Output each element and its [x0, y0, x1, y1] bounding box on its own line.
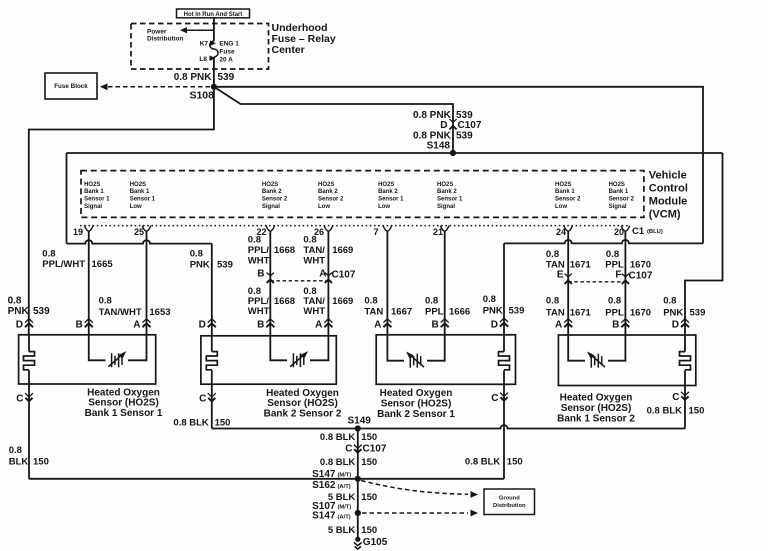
- svg-text:0.8 BLK: 0.8 BLK: [320, 432, 356, 443]
- svg-text:0.8: 0.8: [483, 294, 496, 305]
- wire PNK 539 S148 bus: [67, 152, 723, 154]
- svg-text:S108: S108: [189, 90, 214, 102]
- svg-text:Sensor 1: Sensor 1: [437, 197, 463, 203]
- svg-text:20: 20: [614, 227, 624, 237]
- sensor 1 C pin: [28, 384, 30, 479]
- svg-text:Fuse: Fuse: [219, 48, 235, 55]
- svg-text:HO2S: HO2S: [609, 182, 625, 188]
- sense element sensor 1: [89, 335, 147, 361]
- wire PNK 539 S108 diagonal to S148 drop: [214, 87, 453, 153]
- svg-text:A: A: [319, 268, 326, 279]
- svg-text:539: 539: [217, 259, 233, 270]
- svg-text:Bank 1: Bank 1: [555, 189, 575, 195]
- pin 24: [564, 226, 573, 232]
- svg-text:Power: Power: [147, 28, 167, 35]
- svg-text:D: D: [16, 319, 23, 330]
- wire PNK 539 lower-right bus with hops: [504, 240, 703, 243]
- svg-text:1669: 1669: [332, 296, 353, 307]
- svg-text:Ground: Ground: [499, 495, 520, 501]
- wire 0.8 PNK 539 fuse to S108: [213, 57, 215, 87]
- svg-text:150: 150: [361, 492, 377, 503]
- svg-text:Low: Low: [130, 204, 142, 210]
- VCM connector face C1 dotted line: [80, 225, 629, 227]
- sensor 4 C pin: [684, 386, 686, 429]
- svg-text:TAN: TAN: [546, 307, 565, 318]
- connector pin A at x=328.4: [324, 319, 332, 323]
- svg-text:1668: 1668: [274, 245, 295, 256]
- svg-text:1665: 1665: [92, 259, 114, 270]
- wire PNK 539 left drop: [66, 153, 68, 244]
- svg-text:150: 150: [507, 456, 523, 467]
- inline connector A C107 on wire 1669: [325, 273, 332, 276]
- sense element sensor 2: [270, 336, 328, 361]
- svg-text:0.8: 0.8: [606, 249, 619, 260]
- svg-text:0.8 BLK: 0.8 BLK: [647, 405, 683, 416]
- svg-text:HO2S: HO2S: [130, 182, 146, 188]
- svg-text:Heated Oxygen: Heated Oxygen: [380, 388, 453, 399]
- inline connector F C107 on wire 1670: [622, 274, 629, 277]
- svg-text:Signal: Signal: [609, 204, 627, 210]
- svg-text:HO2S: HO2S: [555, 182, 571, 188]
- heater element sensor 2: [211, 336, 213, 352]
- wire BLK 150 S149 to S147: [357, 429, 359, 479]
- splice S108: [211, 84, 217, 90]
- inline connector B C107 on wire 1668: [267, 273, 274, 276]
- svg-text:Center: Center: [272, 44, 305, 56]
- svg-text:Sensor 1: Sensor 1: [378, 197, 404, 203]
- wire PNK 539 drop to sensor 3 D: [503, 243, 505, 334]
- connector pin D at x=211.8: [208, 319, 216, 323]
- heater element sensor 3: [503, 335, 505, 352]
- svg-text:5 BLK: 5 BLK: [328, 525, 356, 536]
- wire PPL 1670 pin 20: [624, 231, 626, 335]
- svg-text:0.8: 0.8: [303, 234, 316, 245]
- svg-text:ENG 1: ENG 1: [219, 40, 239, 47]
- svg-text:C: C: [16, 393, 23, 404]
- fuse K7/L8 ENG1 20A: [210, 41, 218, 57]
- wire PNK 539 lower-left bus with hops: [67, 240, 212, 243]
- svg-text:L8: L8: [199, 56, 207, 63]
- svg-text:7: 7: [373, 227, 378, 237]
- svg-text:0.8: 0.8: [364, 296, 377, 307]
- splice S149: [355, 425, 361, 431]
- svg-text:C: C: [345, 444, 352, 455]
- svg-text:BLK: BLK: [9, 456, 29, 467]
- sense element sensor 4: [568, 335, 625, 361]
- svg-text:Hot In Run And Start: Hot In Run And Start: [184, 12, 243, 18]
- svg-text:1670: 1670: [630, 260, 651, 271]
- connector pin B at x=88.75: [85, 319, 93, 323]
- svg-text:WHT: WHT: [303, 306, 325, 317]
- svg-text:20 A: 20 A: [219, 57, 233, 64]
- svg-text:PNK: PNK: [8, 306, 30, 317]
- svg-text:Bank 1 Sensor 2: Bank 1 Sensor 2: [557, 414, 635, 425]
- splice S107/S147: [355, 510, 361, 516]
- HO2S sensor 2 box: [201, 336, 336, 384]
- svg-text:A: A: [133, 319, 140, 330]
- svg-text:PPL: PPL: [425, 307, 444, 318]
- underhood fuse-relay center box (dashed): [131, 24, 269, 70]
- svg-text:1666: 1666: [449, 307, 470, 318]
- svg-text:(BLU): (BLU): [647, 229, 663, 235]
- ground G105: [355, 537, 360, 542]
- svg-text:1669: 1669: [332, 245, 353, 256]
- connector pin D at x=685: [681, 319, 689, 323]
- svg-text:Low: Low: [318, 204, 330, 210]
- connector pin D at x=504: [500, 318, 508, 322]
- pin 7: [383, 226, 392, 232]
- svg-text:0.8 BLK: 0.8 BLK: [173, 417, 209, 428]
- svg-text:1671: 1671: [570, 260, 592, 271]
- svg-text:(M/T): (M/T): [338, 505, 352, 511]
- splice S148: [450, 150, 456, 156]
- inline connector C C107 ground: [354, 445, 362, 449]
- svg-text:1670: 1670: [630, 307, 651, 318]
- sensor 3 C pin wire: [503, 384, 505, 479]
- svg-text:150: 150: [361, 457, 377, 468]
- svg-text:D: D: [440, 120, 447, 131]
- svg-text:21: 21: [433, 227, 443, 237]
- svg-text:Signal: Signal: [84, 204, 102, 210]
- wire TAN/WHT 1669 pin 26: [327, 231, 329, 335]
- svg-text:Low: Low: [378, 204, 390, 210]
- svg-text:0.8: 0.8: [9, 445, 22, 456]
- svg-text:Sensor 1: Sensor 1: [130, 197, 156, 203]
- svg-text:S148: S148: [427, 140, 451, 151]
- svg-text:B: B: [431, 319, 438, 330]
- svg-text:539: 539: [33, 306, 50, 317]
- svg-text:TAN/WHT: TAN/WHT: [99, 307, 142, 318]
- dashed connector link C107 left: [270, 280, 328, 282]
- wire 5 BLK 150 upper: [357, 479, 359, 513]
- pin 21: [440, 226, 449, 232]
- inline connector E C107 on wire 1671: [565, 274, 572, 277]
- connector pin B at x=444.7: [441, 319, 449, 323]
- svg-text:1671: 1671: [570, 307, 592, 318]
- svg-text:D: D: [491, 319, 498, 330]
- svg-text:Bank 1: Bank 1: [130, 189, 150, 195]
- svg-text:Bank 2: Bank 2: [437, 189, 457, 195]
- pin 20: [621, 226, 630, 232]
- pin 25: [142, 226, 151, 232]
- connector pin B at x=625.4: [621, 319, 629, 323]
- ground bus S149 (BLK 150): [212, 425, 685, 429]
- svg-text:24: 24: [556, 227, 566, 237]
- svg-text:Module: Module: [649, 195, 688, 207]
- pin 19: [84, 226, 93, 232]
- svg-text:F: F: [615, 269, 621, 280]
- svg-text:C: C: [491, 393, 498, 404]
- svg-text:WHT: WHT: [248, 306, 270, 317]
- svg-text:1653: 1653: [149, 307, 170, 318]
- svg-text:Fuse Block: Fuse Block: [54, 83, 88, 90]
- wire 5 BLK 150 lower: [357, 513, 359, 538]
- label Hot In Run And Start: [177, 9, 250, 18]
- svg-text:PNK: PNK: [483, 306, 503, 317]
- svg-text:0.8 PNK: 0.8 PNK: [174, 72, 213, 83]
- svg-text:WHT: WHT: [303, 256, 325, 267]
- svg-text:PPL/: PPL/: [248, 245, 269, 256]
- svg-text:150: 150: [33, 456, 49, 467]
- wire PNK 539 drop to sensor 2 D: [211, 244, 213, 336]
- svg-text:Vehicle: Vehicle: [649, 170, 687, 182]
- svg-text:S149: S149: [348, 415, 372, 426]
- arrowhead at fuse block: [100, 83, 108, 90]
- svg-text:C107: C107: [629, 270, 653, 281]
- svg-text:Heated Oxygen: Heated Oxygen: [560, 392, 633, 403]
- svg-text:Low: Low: [555, 204, 567, 210]
- wire PNK 539 S108 right to VCM corner: [214, 87, 703, 244]
- svg-text:PPL: PPL: [605, 260, 624, 271]
- svg-text:0.8 BLK: 0.8 BLK: [320, 457, 356, 468]
- svg-text:B: B: [76, 319, 83, 330]
- svg-text:Bank 2 Sensor 1: Bank 2 Sensor 1: [377, 409, 455, 420]
- wire PPL/WHT 1668 pin 22: [269, 231, 271, 335]
- svg-text:A: A: [374, 319, 381, 330]
- dashed wire S108 to fuse block: [108, 86, 214, 88]
- svg-text:HO2S: HO2S: [318, 182, 334, 188]
- wire PPL 1666 pin 21: [444, 231, 446, 334]
- svg-text:(VCM): (VCM): [649, 208, 681, 220]
- svg-text:A: A: [315, 319, 322, 330]
- svg-text:Distribution: Distribution: [493, 503, 526, 509]
- svg-text:PNK: PNK: [190, 259, 210, 270]
- splice S147: [355, 476, 361, 482]
- svg-text:G105: G105: [363, 537, 388, 548]
- svg-text:HO2S: HO2S: [378, 182, 394, 188]
- svg-text:C107: C107: [363, 444, 387, 455]
- svg-text:539: 539: [456, 131, 473, 142]
- dashed arrow to ground distribution lower: [362, 512, 468, 514]
- svg-text:C: C: [199, 393, 206, 404]
- svg-text:0.8 BLK: 0.8 BLK: [465, 456, 501, 467]
- svg-text:0.8: 0.8: [663, 296, 676, 307]
- svg-text:PNK: PNK: [663, 307, 683, 318]
- svg-text:539: 539: [218, 72, 235, 83]
- svg-text:19: 19: [73, 227, 83, 237]
- svg-text:0.8: 0.8: [99, 296, 112, 307]
- svg-text:D: D: [199, 319, 206, 330]
- svg-text:(A/T): (A/T): [338, 514, 351, 520]
- svg-text:C107: C107: [458, 120, 482, 131]
- svg-text:Sensor 2: Sensor 2: [262, 197, 288, 203]
- wire fuse feed: [213, 18, 215, 41]
- svg-text:0.8: 0.8: [546, 296, 559, 307]
- fuse block box: [45, 73, 97, 99]
- pin 22: [266, 226, 275, 232]
- svg-text:Sensor 1: Sensor 1: [84, 197, 110, 203]
- connector pin A at x=568.2: [564, 319, 572, 323]
- svg-text:PPL: PPL: [605, 307, 624, 318]
- wire TAN 1671 pin 24: [567, 231, 569, 335]
- svg-text:Bank 2: Bank 2: [318, 189, 338, 195]
- dashed arrow to ground distribution upper: [361, 481, 468, 495]
- svg-text:HO2S: HO2S: [262, 182, 278, 188]
- svg-text:Sensor (HO2S): Sensor (HO2S): [381, 399, 452, 410]
- svg-text:Bank 1: Bank 1: [609, 189, 629, 195]
- wire PPL/WHT 1665 pin 19: [88, 231, 90, 334]
- svg-text:Bank 2: Bank 2: [378, 189, 398, 195]
- svg-text:150: 150: [361, 525, 377, 536]
- svg-text:0.8: 0.8: [248, 234, 261, 245]
- svg-text:0.8: 0.8: [42, 248, 55, 259]
- svg-text:HO2S: HO2S: [437, 182, 453, 188]
- svg-text:Sensor 2: Sensor 2: [318, 197, 344, 203]
- svg-text:0.8: 0.8: [608, 296, 621, 307]
- sensor 2 C pin: [211, 384, 213, 428]
- svg-text:0.8: 0.8: [190, 248, 203, 259]
- heater element sensor 4: [684, 335, 686, 352]
- svg-text:S162: S162: [312, 480, 336, 491]
- sense element sensor 3: [387, 335, 444, 361]
- svg-text:Bank 1 Sensor 1: Bank 1 Sensor 1: [85, 408, 163, 419]
- connector pin A at x=387.4: [383, 319, 391, 323]
- inline connector D C107: [449, 119, 456, 122]
- svg-text:(A/T): (A/T): [338, 484, 351, 490]
- svg-text:Signal: Signal: [262, 204, 280, 210]
- svg-text:0.8: 0.8: [425, 296, 438, 307]
- svg-text:B: B: [257, 268, 264, 279]
- svg-text:0.8: 0.8: [8, 296, 22, 307]
- svg-text:25: 25: [134, 227, 144, 237]
- svg-text:HO2S: HO2S: [84, 182, 100, 188]
- svg-text:150: 150: [215, 417, 231, 428]
- svg-text:1667: 1667: [391, 307, 412, 318]
- svg-text:Sensor 2: Sensor 2: [555, 197, 581, 203]
- svg-text:WHT: WHT: [248, 256, 270, 267]
- svg-text:C1: C1: [632, 226, 645, 237]
- HO2S sensor 4 box: [558, 335, 695, 386]
- svg-text:Control: Control: [649, 183, 688, 195]
- svg-text:539: 539: [690, 307, 706, 318]
- svg-text:K7: K7: [200, 41, 209, 48]
- svg-text:Distribution: Distribution: [147, 35, 183, 42]
- heater element sensor 1: [28, 335, 30, 352]
- ground distribution box: [484, 489, 535, 515]
- connector pin D at x=29: [25, 319, 33, 323]
- svg-text:A: A: [555, 319, 562, 330]
- svg-text:C: C: [672, 392, 679, 403]
- svg-text:E: E: [557, 269, 564, 280]
- svg-text:D: D: [672, 319, 679, 330]
- svg-text:Bank 2 Sensor 2: Bank 2 Sensor 2: [264, 409, 342, 420]
- pin 26: [324, 226, 333, 232]
- svg-text:B: B: [257, 319, 264, 330]
- svg-text:S147: S147: [312, 511, 336, 522]
- svg-text:C107: C107: [332, 269, 356, 280]
- svg-text:539: 539: [509, 306, 525, 317]
- svg-text:Signal: Signal: [437, 204, 455, 210]
- svg-text:Bank 1: Bank 1: [84, 189, 104, 195]
- svg-text:Bank 2: Bank 2: [262, 189, 282, 195]
- dashed connector link C107 right: [568, 281, 625, 283]
- svg-text:TAN/: TAN/: [303, 245, 325, 256]
- svg-text:TAN: TAN: [364, 307, 383, 318]
- power distribution arrow: [184, 29, 214, 31]
- svg-text:Sensor 2: Sensor 2: [609, 197, 635, 203]
- wire TAN/WHT 1653 pin 25: [146, 231, 148, 334]
- wire TAN 1667 pin 7: [386, 231, 388, 334]
- svg-text:Sensor (HO2S): Sensor (HO2S): [561, 403, 632, 414]
- wire S108 branch to sensor 1 D: [29, 87, 214, 335]
- connector pin A at x=146.5: [143, 319, 151, 323]
- wire PNK 539 right drop to sensor 4 D: [685, 153, 723, 335]
- ground bus S147: [29, 478, 504, 480]
- HO2S sensor 3 box: [376, 335, 515, 385]
- VCM dashed box: [81, 171, 644, 218]
- svg-text:150: 150: [689, 405, 705, 416]
- svg-text:PPL/WHT: PPL/WHT: [42, 259, 85, 270]
- svg-text:150: 150: [361, 432, 377, 443]
- HO2S sensor 1 box: [19, 335, 156, 384]
- connector pin B at x=270.3: [266, 319, 274, 323]
- svg-text:TAN: TAN: [546, 260, 565, 271]
- svg-text:1668: 1668: [274, 296, 295, 307]
- svg-text:(M/T): (M/T): [338, 473, 352, 479]
- svg-text:B: B: [612, 319, 619, 330]
- svg-text:0.8: 0.8: [546, 249, 559, 260]
